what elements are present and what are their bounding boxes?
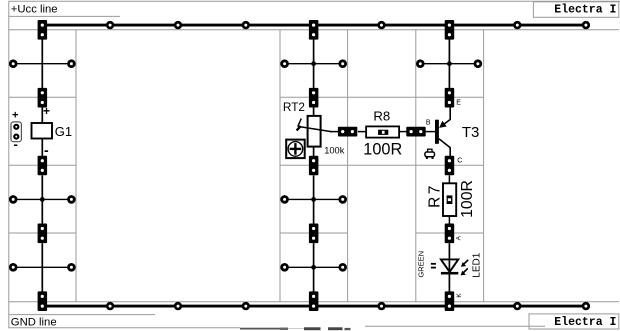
jumper wire row A middle [282, 61, 346, 67]
svg-text:+Ucc line: +Ucc line [11, 3, 58, 15]
pads column G1 [38, 20, 48, 311]
svg-text:C: C [457, 158, 462, 165]
svg-text:-: - [44, 142, 49, 158]
jumper wire row B middle [282, 197, 346, 203]
svg-text:GREEN: GREEN [416, 251, 425, 278]
svg-text:G1: G1 [55, 124, 72, 139]
svg-text:100R: 100R [459, 180, 476, 218]
vias on +Ucc bus [107, 22, 589, 28]
vias on GND bus [107, 303, 589, 309]
wire column RT2 [313, 40, 315, 292]
pad pair left of R8 [338, 127, 357, 137]
battery G1 [32, 104, 73, 158]
footer cut-off text marks [240, 326, 545, 330]
jumper wire row A left [10, 61, 74, 67]
junction at column RT2 row A [311, 61, 316, 66]
junction at column RT2 row C [311, 265, 316, 270]
svg-text:T3: T3 [462, 124, 480, 141]
connector (battery clip) [11, 110, 21, 152]
svg-text:R8: R8 [373, 108, 390, 123]
wire pad to R8 body [358, 131, 366, 133]
jumper wire row B left [10, 197, 74, 203]
svg-text:+: + [12, 110, 18, 122]
svg-text:LED1: LED1 [471, 252, 482, 277]
junction at column T3 row A [447, 61, 452, 66]
svg-text:Electra I: Electra I [554, 4, 616, 17]
jumper wire row C left [10, 264, 74, 270]
svg-text:A: A [455, 235, 462, 240]
wire column G1 [41, 40, 43, 292]
trimmer RT2 [283, 100, 345, 156]
resistor R7 [427, 175, 476, 223]
jumper wire row C middle [282, 264, 346, 270]
svg-text:+: + [43, 104, 50, 118]
jumper wire row A right [417, 61, 480, 67]
svg-text:Electra I: Electra I [554, 316, 616, 329]
svg-text:E: E [456, 99, 461, 106]
wire pad to T3 base [426, 131, 435, 133]
svg-text:100k: 100k [324, 145, 345, 155]
GND bus wire [42, 305, 586, 308]
trimmer RT2 screw symbol [286, 140, 305, 159]
pads column T3 [445, 20, 455, 311]
svg-text:GND line: GND line [11, 317, 57, 329]
wire R8 body to pad [399, 131, 406, 133]
wire T3 top [448, 40, 450, 89]
junction at column RT2 row B [311, 197, 316, 202]
svg-text:RT2: RT2 [283, 100, 305, 114]
+Ucc bus wire [42, 24, 586, 27]
TO-92 case icon [425, 149, 435, 159]
resistor R8 [363, 108, 402, 158]
svg-text:K: K [456, 293, 463, 298]
pad pair right of R8 [406, 127, 425, 137]
svg-text:-: - [14, 137, 18, 152]
svg-text:R7: R7 [427, 183, 444, 208]
pads column RT2 [309, 20, 319, 311]
svg-text:B: B [426, 119, 431, 126]
transistor T3 [435, 107, 479, 156]
LED1 [416, 243, 482, 291]
svg-text:100R: 100R [363, 140, 402, 158]
junction at column G1 row B [40, 197, 45, 202]
wire RT2 wiper to R8 [330, 131, 339, 133]
